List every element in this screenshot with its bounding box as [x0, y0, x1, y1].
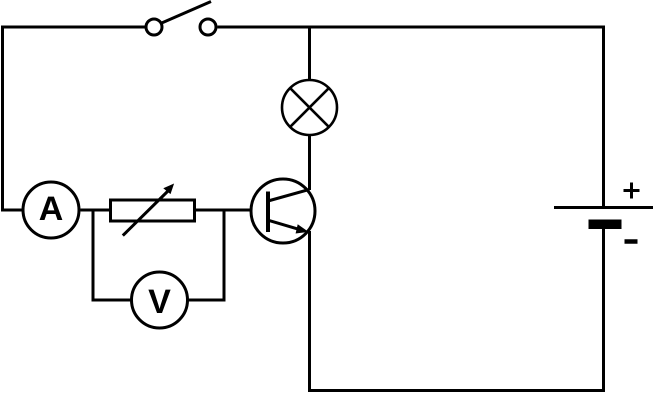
transistor Q1 emitter arrowhead	[296, 224, 309, 233]
node: lamp branch junction on top wire	[308, 26, 311, 82]
transistor Q1 emitter line	[268, 220, 298, 229]
switch S1 left contact	[146, 19, 162, 35]
variable resistor R1 diagonal arrow shaft	[123, 190, 169, 236]
wire: variable resistor to transistor base	[193, 209, 267, 212]
battery B1 positive sign	[624, 183, 640, 199]
wire: voltmeter left arm	[92, 299, 134, 302]
wire: right rail lower (battery negative to bottom corner)	[602, 229, 605, 392]
lamp L1 (circle with cross)	[282, 80, 337, 135]
battery B1 negative plate (short thick)	[589, 220, 622, 230]
wire: lamp bottom to transistor collector junction	[308, 134, 311, 190]
variable resistor R1 body	[111, 200, 195, 221]
wire: top segment from left rail to switch left contact	[1, 26, 145, 29]
transistor Q1 collector line	[268, 189, 309, 201]
transistor Q1 base bar	[266, 192, 270, 233]
switch S1 lever (open)	[161, 2, 212, 24]
variable resistor R1 arrowhead	[163, 184, 174, 195]
wire: bottom segment	[308, 389, 605, 392]
voltmeter V1 label "V"	[148, 290, 170, 313]
battery B1 negative sign	[625, 239, 638, 244]
wire: emitter to bottom-left corner	[308, 231, 311, 392]
transistor Q1 circle	[251, 179, 315, 243]
ammeter A1 circle	[23, 182, 79, 238]
lamp L1 cross stroke 2	[290, 88, 329, 127]
battery B1 positive plate (long)	[554, 206, 653, 209]
ammeter A1 label "A"	[40, 197, 63, 220]
node: voltmeter right branch junction	[223, 209, 226, 302]
wire: top segment from switch right contact to top-right corner	[218, 26, 606, 29]
lamp L1 cross stroke 1	[290, 88, 329, 127]
wire: ammeter to variable resistor	[81, 209, 113, 212]
wire: left rail to ammeter	[1, 209, 24, 212]
wire: right rail upper (top corner to battery positive plate)	[602, 26, 605, 208]
voltmeter V1 circle	[132, 272, 188, 328]
wire: voltmeter right arm	[186, 299, 226, 302]
wire: left rail (vertical)	[1, 26, 4, 212]
switch S1 right contact	[200, 19, 216, 35]
node: voltmeter left branch junction	[92, 209, 95, 302]
